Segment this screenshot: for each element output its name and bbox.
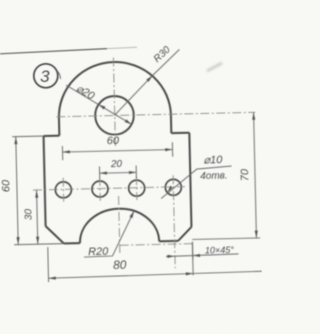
arrow 60 left bottom [16, 237, 19, 244]
svg-text:60: 60 [0, 179, 12, 192]
centerline horizontal through hole row [33, 187, 185, 190]
hole 4 d10 [165, 179, 181, 195]
arrow R20 [129, 211, 134, 218]
dim line 10x45 [166, 254, 239, 257]
leader R30 [113, 49, 181, 115]
centerline vertical cutout [119, 196, 120, 254]
extension line hole 4 [171, 142, 173, 156]
extension line 80 right [191, 242, 194, 275]
outline R20 cutout arc [79, 208, 159, 243]
svg-text:30: 30 [23, 208, 34, 220]
outline right shoulder [171, 132, 189, 134]
dim line 80 bottom [48, 271, 261, 278]
hole 2 d10 [92, 181, 108, 197]
centerline vertical hole 3 [135, 176, 138, 200]
outline left edge [44, 136, 46, 226]
svg-text:80: 80 [113, 258, 127, 272]
page border line top faint tail [107, 47, 137, 48]
outline right edge [189, 133, 191, 227]
extension line hole 3 [135, 166, 137, 179]
outline bottom edge left [64, 242, 80, 244]
svg-text:R20: R20 [88, 246, 109, 258]
svg-text:60: 60 [107, 135, 120, 147]
svg-text:70: 70 [239, 168, 251, 181]
arrow 20 span left [100, 171, 107, 174]
hole 1 d10 [55, 182, 71, 198]
arrow d10 [167, 186, 173, 193]
balloon leader tail [57, 71, 60, 79]
arrow 80 right [186, 272, 193, 275]
outline left shoulder [44, 135, 60, 137]
outline right chamfer 10x45 [178, 227, 192, 241]
extension line chamfer right [191, 242, 193, 259]
leader d10 with shelf [161, 166, 233, 199]
leader R20 with shelf [83, 211, 135, 257]
arrow 30 top [35, 190, 38, 197]
extension line bottom right [192, 238, 260, 240]
arrow 20 span right [129, 171, 136, 174]
centerline horizontal through bore [56, 112, 255, 117]
extension line hole 1 [61, 146, 63, 160]
svg-text:20: 20 [110, 159, 123, 170]
arrow 70 top [252, 112, 255, 119]
svg-text:⌀10: ⌀10 [203, 154, 223, 166]
centerline vertical through bore [113, 58, 115, 146]
svg-text:10×45°: 10×45° [205, 245, 234, 256]
arrow 60 span left [62, 150, 69, 153]
bore d20 circle [95, 96, 134, 135]
outline bottom edge right [159, 240, 178, 242]
balloon circle item 3 [34, 64, 58, 88]
arrow 10x45 right [193, 254, 200, 257]
dim line 20 hole span [100, 171, 137, 174]
pencil smudge top right [207, 63, 222, 71]
arrow 60 left top [14, 137, 17, 144]
arrow d20 upper [99, 104, 106, 109]
outline dome right vertical [170, 114, 172, 133]
dim line 60 hole span [63, 150, 173, 152]
arrow d20 lower [125, 119, 132, 124]
centerline vertical hole 2 [99, 177, 102, 201]
arrow 80 left [48, 277, 55, 280]
extension line 80 left [47, 247, 50, 282]
dim line 70 vertical [254, 112, 257, 238]
svg-text:3: 3 [40, 67, 50, 86]
extension line shoulder left [12, 135, 43, 138]
extension line hole 2 [98, 166, 100, 179]
dim line 60 left vertical [16, 137, 18, 245]
hole 3 d10 [128, 180, 144, 196]
arrow 70 bottom [255, 231, 258, 238]
outline left chamfer [46, 226, 64, 244]
centerline vertical hole 1 [62, 178, 65, 202]
svg-text:4отв.: 4отв. [200, 170, 228, 182]
arrow R30 [146, 75, 153, 81]
arrow 30 bottom [36, 237, 39, 244]
page border line top [0, 49, 107, 54]
centerline vertical hole 4 extended [173, 175, 175, 268]
arrow 60 span right [165, 148, 172, 151]
centerline horizontal cutout [120, 244, 194, 246]
extension line bottom left [14, 244, 64, 245]
leader d20 [66, 84, 132, 126]
arrow 10x45 left [167, 255, 174, 258]
outline dome arc R30 [58, 61, 171, 118]
outline dome left vertical [58, 117, 60, 136]
dim line 30 vertical [37, 190, 38, 244]
